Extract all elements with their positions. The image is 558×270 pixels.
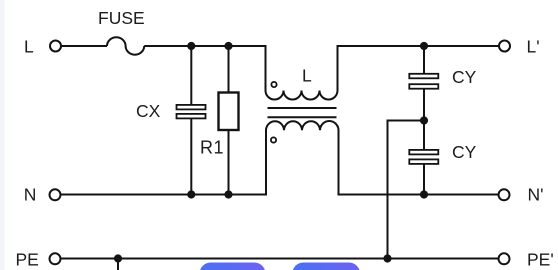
wire fuse to choke: [144, 45, 265, 47]
junction dot L rail / CX: [187, 42, 195, 50]
svg-text:PE: PE: [16, 250, 39, 270]
svg-text:L: L: [24, 36, 34, 56]
svg-text:L: L: [302, 65, 312, 85]
choke L bottom winding: [266, 121, 339, 195]
svg-text:N': N': [528, 184, 544, 204]
svg-text:CX: CX: [136, 101, 161, 121]
wire R1 top lead: [228, 46, 230, 93]
terminal N: [50, 189, 61, 200]
junction dot PE rail / CY midpoint: [383, 254, 391, 262]
junction dot N rail / CX: [187, 190, 195, 198]
svg-text:CY: CY: [452, 67, 477, 87]
choke L polarity dot bottom: [271, 137, 276, 142]
wire R1 bottom lead: [228, 130, 230, 195]
junction dot CY midpoint: [420, 116, 428, 124]
terminal PE': [499, 253, 510, 264]
junction dot L' rail / CY1: [420, 42, 428, 50]
svg-text:CY: CY: [452, 142, 477, 162]
choke L polarity dot top: [271, 82, 276, 87]
choke L core: [268, 108, 337, 117]
wire CY1 to midpoint: [423, 89, 425, 121]
wire PE stub down: [117, 259, 119, 270]
svg-text:R1: R1: [200, 138, 224, 158]
wire L terminal to fuse: [62, 45, 107, 47]
junction dot N' rail / CY2: [420, 190, 428, 198]
capacitor CY2: [409, 150, 438, 164]
wire CY1 top lead: [423, 46, 425, 74]
capacitor CX: [177, 105, 206, 119]
svg-text:L': L': [527, 36, 540, 56]
junction dot L rail / R1: [224, 42, 232, 50]
resistor R1: [219, 93, 239, 131]
button 1: [200, 263, 266, 270]
terminal L': [499, 41, 510, 52]
wire CX bottom lead: [190, 119, 192, 195]
terminal N': [499, 189, 510, 200]
wire CY midpoint down to CY2: [423, 121, 425, 151]
svg-text:N: N: [24, 184, 37, 204]
terminal L: [50, 41, 61, 52]
wire choke to L' terminal: [338, 45, 500, 47]
fuse F1: [107, 37, 144, 54]
junction dot N rail / R1: [224, 190, 232, 198]
wire CY midpoint to PE rail: [388, 121, 425, 259]
choke L top winding: [266, 45, 338, 100]
terminal PE: [50, 253, 61, 264]
wire N rail: [61, 194, 267, 196]
wire CY2 bottom lead: [423, 164, 425, 195]
wire N' rail: [339, 194, 499, 196]
svg-text:PE': PE': [527, 250, 554, 270]
button 2: [292, 263, 360, 270]
svg-text:FUSE: FUSE: [98, 8, 145, 28]
wire CX top lead: [190, 46, 192, 105]
wire PE rail: [61, 258, 498, 260]
capacitor CY1: [409, 74, 438, 89]
junction dot PE rail / stub: [114, 254, 122, 262]
